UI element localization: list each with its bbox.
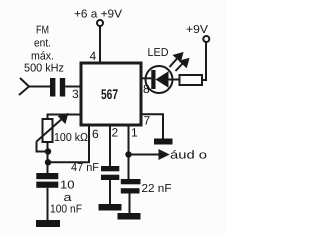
wire pin1 down [128,125,130,179]
wire wiper to lower terminal [37,142,48,152]
svg-text:6: 6 [92,127,99,141]
svg-text:+9V: +9V [186,24,208,36]
capacitor C4 (22 nF) [121,179,141,194]
svg-text:8: 8 [143,82,150,96]
svg-text:100 nF: 100 nF [50,204,82,216]
svg-text:500 kHz: 500 kHz [24,63,64,75]
LED emission arrows [170,53,189,71]
ground (C2) [36,220,60,227]
node +9V terminal [186,24,209,42]
wire pin4 supply [99,26,101,63]
wire pin5 to potentiometer top [48,115,82,120]
wire audio output arrow [129,151,168,159]
svg-text:100 kΩ: 100 kΩ [54,132,88,144]
svg-text:LED: LED [148,47,169,59]
wire pot bottom chain [47,142,49,173]
capacitor C2 (10 a 100 nF) [36,173,58,188]
ground (pin 7) [154,139,173,145]
node junction dot A [45,148,51,154]
resistor R1 (LED series) [180,75,203,85]
svg-text:10: 10 [60,180,75,192]
svg-text:47 nF: 47 nF [71,162,99,174]
svg-text:7: 7 [144,114,151,128]
node +6 a +9V supply terminal [74,9,122,27]
svg-text:ent.: ent. [34,38,51,50]
wire C3 to ground [109,180,111,204]
ground (C4) [118,213,141,220]
wire C1 to pin3 [65,86,81,88]
svg-text:FM: FM [36,25,49,37]
wire junction B to pin 6 [48,125,89,162]
svg-text:2: 2 [112,126,119,140]
wire C4 to ground [129,194,131,214]
potentiometer P1 body [43,119,53,142]
svg-text:4: 4 [90,49,97,63]
node junction dot B [45,159,51,165]
wire C2 to ground [47,188,49,220]
svg-text:1: 1 [131,126,138,140]
value label 10 a 100 nF [50,180,82,216]
svg-text:+6 a +9V: +6 a +9V [74,9,122,21]
node input connector chevron [19,78,29,95]
op-amp U1 (tone decoder IC 567 body) [81,63,141,125]
svg-text:3: 3 [72,87,79,101]
svg-text:áud o: áud o [170,150,207,162]
ground (C3) [99,204,122,211]
capacitor C1 (input coupling) [50,78,65,97]
wire pin7 to ground [141,114,163,138]
wire pin2 to C3 [109,125,111,166]
capacitor C3 (47 nF) [101,166,119,180]
wire input to C1 [29,86,50,88]
svg-text:22 nF: 22 nF [142,183,172,195]
LED D1 [141,66,180,93]
node junction dot audio [125,151,131,157]
svg-text:máx.: máx. [31,51,54,63]
svg-text:567: 567 [101,86,118,102]
wire R1 to +9V [202,42,206,80]
svg-text:a: a [64,192,73,204]
node FM input label [24,25,64,75]
potentiometer P1 wiper arrow [37,114,68,141]
